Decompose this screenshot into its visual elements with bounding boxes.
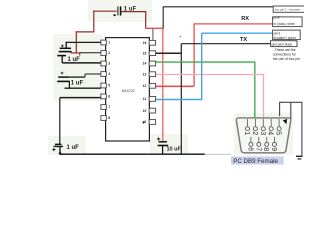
svg-text:pin3: pin3 — [274, 31, 281, 35]
svg-text:MAX232: MAX232 — [122, 89, 135, 93]
svg-text:TX: TX — [240, 37, 247, 43]
svg-text:4: 4 — [267, 131, 274, 135]
svg-text:PC DB9 Female: PC DB9 Female — [233, 158, 278, 165]
svg-text:5: 5 — [108, 84, 110, 88]
svg-text:pin2: pin2 — [273, 15, 280, 19]
svg-text:1: 1 — [108, 41, 110, 45]
svg-text:10 uF: 10 uF — [167, 146, 182, 152]
svg-text:10: 10 — [143, 109, 147, 113]
svg-text:2: 2 — [251, 131, 258, 135]
svg-text:the usb of four pin.: the usb of four pin. — [273, 57, 301, 61]
svg-text:6: 6 — [246, 147, 253, 151]
svg-text:1: 1 — [243, 131, 250, 135]
svg-text:2: 2 — [108, 51, 110, 55]
svg-text:..These are the: ..These are the — [273, 48, 296, 52]
svg-text:dx(data+) green: dx(data+) green — [273, 36, 296, 40]
svg-text:4: 4 — [108, 72, 110, 76]
svg-text:11: 11 — [143, 97, 147, 101]
svg-text:3: 3 — [108, 62, 110, 66]
svg-text:connections for: connections for — [273, 52, 297, 56]
svg-text:vcc pin 1 - red wire: vcc pin 1 - red wire — [275, 8, 301, 12]
svg-text:6: 6 — [108, 95, 110, 99]
svg-text:16: 16 — [143, 41, 147, 45]
svg-text:rd (data-) white: rd (data-) white — [273, 22, 295, 26]
svg-text:5: 5 — [275, 131, 282, 135]
svg-text:1 uF: 1 uF — [124, 7, 137, 13]
svg-text:15: 15 — [143, 51, 147, 55]
svg-text:14: 14 — [143, 62, 147, 66]
svg-text:1 uF: 1 uF — [68, 57, 81, 63]
svg-text:RX: RX — [241, 16, 249, 22]
svg-text:gnd pin4 black: gnd pin4 black — [272, 42, 293, 46]
svg-text:7: 7 — [254, 147, 261, 151]
svg-text:3: 3 — [259, 131, 266, 135]
svg-text:13: 13 — [143, 72, 147, 76]
svg-text:12: 12 — [143, 84, 147, 88]
svg-text:8: 8 — [262, 147, 269, 151]
svg-text:8: 8 — [108, 116, 110, 120]
svg-text:9: 9 — [270, 147, 277, 151]
svg-text:1 uF: 1 uF — [71, 81, 84, 87]
svg-text:1 uF: 1 uF — [67, 145, 80, 151]
svg-text:7: 7 — [108, 105, 110, 109]
